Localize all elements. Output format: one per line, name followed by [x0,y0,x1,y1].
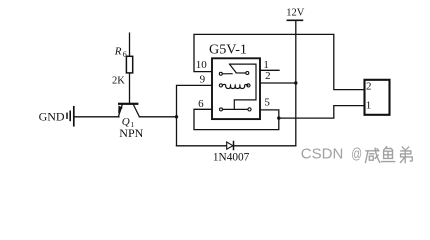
svg-text:GND: GND [39,109,65,123]
connector J1 box [365,80,390,115]
12V terminal bar [287,19,302,21]
wire diode rail [177,145,296,147]
transistor Q1 emitter diagonal with arrow [118,105,122,117]
wire pin2 to 12V junction [260,82,296,84]
node junction dot pin2/12V [294,81,297,84]
transistor Q1 bar [118,103,138,105]
wire top rail with pin10 riser and drop to connector pin2 [194,34,365,89]
svg-text:5: 5 [264,96,270,108]
relay common bar and step to bottom contact [230,64,257,109]
wire 12V vertical down to diode rail [295,20,297,146]
watermark chinese glyph di [400,147,412,163]
watermark chinese glyph xian [365,148,379,163]
node junction dot pin5/pin6/connector [277,116,280,119]
svg-text:NPN: NPN [119,126,143,140]
wire base from GND [75,116,119,118]
svg-text:G5V-1: G5V-1 [209,41,247,56]
relay switch blade [230,64,246,73]
wire pin5 [260,110,279,118]
diode D1 1N4007 [227,142,233,149]
relay coil [219,84,222,87]
svg-text:12V: 12V [286,8,305,19]
svg-text:9: 9 [200,73,206,85]
wire pin1 stub [260,69,279,71]
relay bottom contact row [220,108,223,111]
ground symbol bars [66,113,68,118]
svg-text:R: R [114,45,122,57]
svg-text:2: 2 [366,80,372,92]
relay switch fixed contact left [219,72,222,75]
svg-text:6: 6 [198,98,204,110]
wire pin9 to emitter junction down to diode rail [177,85,213,145]
wire pin6 loop [194,109,279,129]
wire junction to connector pin1 [279,106,365,119]
watermark chinese glyph yu [381,147,394,162]
transistor Q1 base diagonal [133,105,139,117]
relay switch fixed contact right [246,72,249,75]
resistor R6 lead [129,33,131,103]
svg-text:2: 2 [265,70,271,82]
node junction dot emitter/pin9/diode [175,115,178,118]
svg-text:1: 1 [366,99,372,111]
svg-text:@: @ [351,146,362,163]
relay U1 G5V-1 box [212,58,260,119]
svg-text:10: 10 [196,59,208,71]
resistor R6 body [126,56,132,73]
svg-text:1N4007: 1N4007 [213,152,250,164]
svg-text:6: 6 [123,50,127,59]
svg-text:CSDN: CSDN [301,146,344,163]
wire emitter to junction [139,116,176,118]
svg-text:2K: 2K [112,76,125,87]
